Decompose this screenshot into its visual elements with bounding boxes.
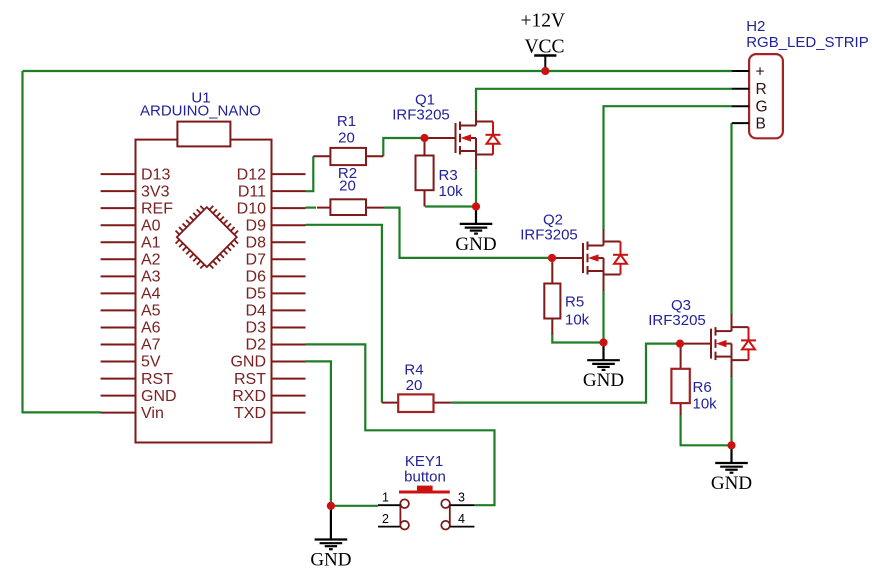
Q2 drain pin	[603, 229, 605, 246]
junction Q3 source GND	[727, 441, 735, 449]
ic U1 ARDUINO_NANO body	[136, 140, 272, 443]
KEY1 pin 4	[450, 526, 475, 528]
svg-text:ARDUINO_NANO: ARDUINO_NANO	[140, 103, 261, 120]
svg-text:GND: GND	[583, 370, 624, 391]
svg-text:Vin: Vin	[141, 405, 164, 422]
junction Q2 gate	[548, 254, 556, 262]
U1 pin D4 (right)	[272, 309, 306, 311]
svg-text:R3: R3	[439, 167, 458, 184]
svg-text:A6: A6	[141, 320, 161, 337]
svg-text:+12V: +12V	[521, 11, 566, 32]
svg-text:RST: RST	[234, 371, 266, 388]
U1 pin A0 (left)	[101, 224, 136, 226]
wire +12V rail from left border to H2 plus pin	[23, 70, 733, 72]
resistor R2 20	[317, 207, 330, 209]
U1 usb connector box	[177, 122, 230, 147]
resistor R5 10k	[551, 261, 553, 284]
junction GND KEY1	[327, 502, 335, 510]
Q1 drain pin	[475, 111, 477, 126]
U1 pin A4 (left)	[101, 292, 136, 294]
U1 pin A5 (left)	[101, 309, 136, 311]
svg-text:D13: D13	[141, 166, 170, 183]
U1 pin D5 (right)	[272, 292, 306, 294]
junction VCC rail	[541, 67, 549, 75]
wire R6 bottom to Q3 source junction	[681, 414, 732, 445]
svg-text:R: R	[756, 81, 767, 98]
svg-text:D6: D6	[246, 269, 267, 286]
U1 pin REF (left)	[101, 207, 136, 209]
svg-text:button: button	[404, 469, 446, 486]
resistor R6 10k	[680, 347, 682, 369]
svg-text:D2: D2	[246, 337, 267, 354]
wire Q3 drain to H2 B pin	[730, 123, 732, 315]
svg-text:20: 20	[338, 130, 355, 147]
svg-text:D8: D8	[246, 234, 267, 251]
KEY1 contacts	[400, 499, 450, 529]
wire D10 to R2	[306, 207, 317, 209]
wire R1 to Q1 gate	[383, 138, 423, 156]
svg-text:D7: D7	[246, 252, 267, 269]
U1 pin 5V (left)	[101, 361, 136, 363]
resistor R4 20	[382, 402, 398, 404]
svg-text:D3: D3	[246, 320, 267, 337]
U1 pin A3 (left)	[101, 275, 136, 277]
H2 pin +	[732, 70, 749, 72]
U1 pin A7 (left)	[101, 344, 136, 346]
H2 pin R	[732, 88, 749, 90]
svg-text:TXD: TXD	[234, 405, 266, 422]
svg-text:IRF3205: IRF3205	[520, 227, 578, 244]
svg-text:20: 20	[406, 377, 423, 394]
svg-text:20: 20	[339, 178, 356, 195]
U1 pin D11 (right)	[272, 190, 306, 192]
svg-text:10k: 10k	[439, 183, 464, 200]
U1 pin A1 (left)	[101, 241, 136, 243]
junction Q1 gate	[420, 134, 428, 142]
svg-text:10k: 10k	[693, 396, 718, 413]
wire R3 bottom to Q1 source junction	[425, 205, 476, 207]
svg-text:RST: RST	[141, 371, 173, 388]
wire D9 to R4	[306, 225, 382, 403]
transistor Q1 IRF3205	[427, 122, 494, 155]
wire R2 to Q2 gate	[384, 208, 550, 258]
connector H2 RGB_LED_STRIP	[749, 54, 783, 138]
svg-text:RXD: RXD	[232, 388, 266, 405]
KEY1 pin 3	[450, 504, 475, 506]
svg-text:D12: D12	[237, 166, 266, 183]
U1 pin RXD (right)	[272, 395, 306, 397]
svg-text:REF: REF	[141, 200, 173, 217]
svg-text:RGB_LED_STRIP: RGB_LED_STRIP	[746, 34, 869, 51]
svg-text:KEY1: KEY1	[405, 453, 443, 470]
svg-text:2: 2	[382, 512, 389, 526]
junction Q2 source GND	[599, 338, 607, 346]
svg-text:D9: D9	[246, 217, 267, 234]
transistor Q3 IRF3205	[682, 327, 749, 360]
wire left border down to Vin	[23, 71, 102, 412]
U1 pin RST (right)	[272, 378, 306, 380]
svg-text:GND: GND	[230, 354, 266, 371]
svg-text:R1: R1	[337, 113, 356, 130]
svg-text:B: B	[756, 115, 766, 132]
svg-text:G: G	[756, 99, 768, 116]
svg-text:D11: D11	[238, 183, 266, 200]
svg-text:A2: A2	[141, 252, 161, 269]
wire R5 bottom to Q2 source junction	[552, 333, 603, 343]
transistor Q2 IRF3205	[554, 242, 621, 275]
wire Q2 drain to H2 G pin	[604, 106, 733, 230]
svg-text:+: +	[756, 63, 765, 80]
wire Q1 drain to H2 R pin	[476, 89, 732, 112]
svg-text:A5: A5	[141, 303, 161, 320]
H2 pin G	[732, 105, 749, 107]
svg-text:GND: GND	[141, 388, 177, 405]
svg-text:10k: 10k	[565, 312, 590, 329]
junction Q1 source GND	[472, 202, 480, 210]
svg-text:GND: GND	[455, 234, 496, 255]
svg-text:A4: A4	[141, 286, 161, 303]
U1 pin 3V3 (left)	[101, 190, 136, 192]
Q3 drain pin	[731, 314, 733, 331]
svg-text:R4: R4	[404, 362, 423, 379]
U1 pin D3 (right)	[272, 326, 306, 328]
U1 pin GND (left)	[101, 395, 136, 397]
svg-text:A3: A3	[141, 269, 161, 286]
Q2 source pin	[603, 271, 605, 291]
ground near Q2	[587, 345, 620, 370]
U1 pin TXD (right)	[272, 412, 306, 414]
KEY1 actuator bar	[399, 491, 450, 494]
wire Q1 source down	[475, 168, 477, 207]
U1 pin A2 (left)	[101, 258, 136, 260]
wire Q2 source down	[602, 290, 604, 343]
svg-text:4: 4	[458, 512, 465, 526]
wire D11 to R1	[306, 156, 314, 191]
U1 pin Vin (left)	[101, 412, 136, 414]
U1 pin D7 (right)	[272, 258, 306, 260]
U1 chip diamond icon	[169, 199, 245, 275]
resistor R1 20	[313, 155, 330, 157]
U1 pin D8 (right)	[272, 241, 306, 243]
svg-text:R6: R6	[693, 379, 712, 396]
U1 pin D2 (right)	[272, 344, 306, 346]
svg-text:5V: 5V	[141, 354, 161, 371]
svg-text:D5: D5	[246, 286, 267, 303]
svg-text:3: 3	[458, 491, 465, 505]
svg-text:GND: GND	[310, 549, 351, 570]
U1 pin RST (left)	[101, 378, 136, 380]
svg-text:1: 1	[382, 491, 389, 505]
U1 pin GND (right)	[272, 361, 306, 363]
ground near Q1	[460, 209, 493, 234]
Q1 source pin	[475, 151, 477, 169]
U1 pin D9 (right)	[272, 224, 306, 226]
wire GND pin to KEY1 pin1 and ground	[306, 361, 331, 505]
junction Q3 gate	[676, 340, 684, 348]
Q3 source pin	[731, 357, 733, 377]
svg-text:IRF3205: IRF3205	[648, 312, 706, 329]
ground near KEY1	[315, 508, 348, 549]
U1 pin D13 (left)	[101, 173, 136, 175]
svg-text:A1: A1	[141, 234, 161, 251]
svg-text:D4: D4	[246, 303, 267, 320]
svg-text:3V3: 3V3	[141, 183, 170, 200]
svg-text:IRF3205: IRF3205	[392, 107, 450, 124]
svg-text:D10: D10	[237, 200, 266, 217]
wire Q3 source down	[730, 376, 732, 445]
H2 pin B	[732, 122, 749, 124]
svg-text:R5: R5	[565, 294, 584, 311]
ground near Q3	[715, 447, 748, 472]
svg-text:A7: A7	[141, 337, 161, 354]
U1 pin D10 (right)	[272, 207, 306, 209]
svg-text:H2: H2	[746, 18, 765, 35]
KEY1 pin 2	[378, 526, 400, 528]
svg-text:GND: GND	[711, 473, 752, 494]
resistor R3 10k	[424, 141, 426, 156]
U1 pin D12 (right)	[272, 173, 306, 175]
U1 pin A6 (left)	[101, 326, 136, 328]
wire R4 to Q3 gate	[451, 344, 678, 403]
wire D2 to KEY1 pin3	[306, 344, 495, 505]
svg-text:A0: A0	[141, 217, 161, 234]
KEY1 pin 1	[378, 504, 400, 506]
U1 pin D6 (right)	[272, 275, 306, 277]
